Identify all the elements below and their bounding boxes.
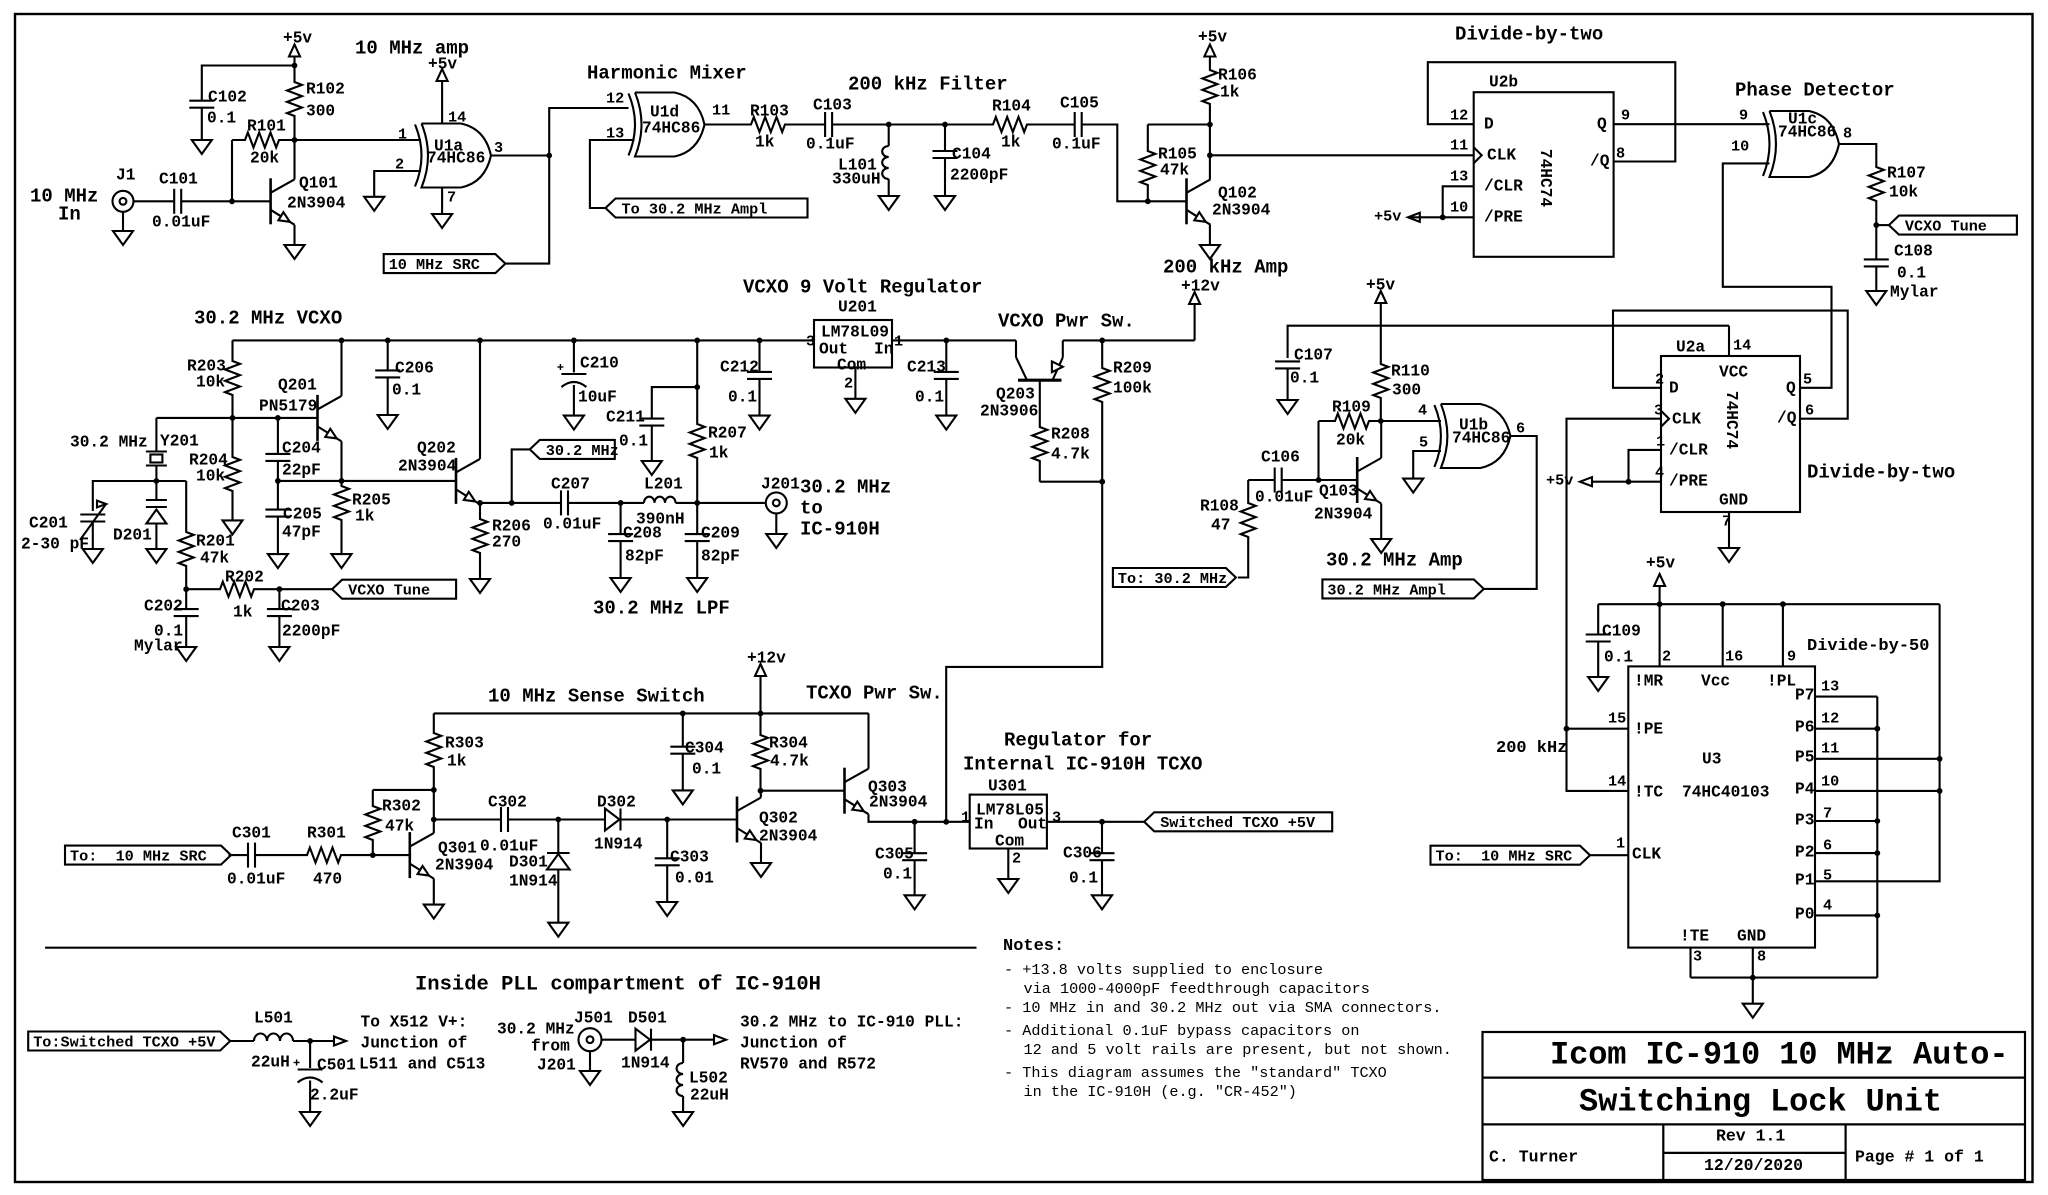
net tag To: 10 MHz SRC (U3) <box>1431 846 1591 865</box>
ground <box>1403 479 1423 493</box>
VCXO top rail <box>233 339 815 341</box>
ground <box>750 416 770 430</box>
node +12v rail <box>758 711 764 717</box>
svg-text:C104: C104 <box>952 145 991 163</box>
svg-text:15: 15 <box>1608 710 1626 728</box>
resistor R102 <box>287 66 302 141</box>
svg-text:Q: Q <box>1597 115 1607 133</box>
svg-text:GND: GND <box>1737 927 1766 945</box>
svg-text:0.1: 0.1 <box>207 109 236 127</box>
svg-text:Switching Lock Unit: Switching Lock Unit <box>1579 1083 1942 1120</box>
svg-text:0.1: 0.1 <box>728 388 757 406</box>
svg-text:+12v: +12v <box>1181 277 1220 295</box>
svg-text:To: 10 MHz SRC: To: 10 MHz SRC <box>1436 848 1573 866</box>
wire U2b Q to U1c pin 9 <box>1614 123 1770 125</box>
svg-text:R208: R208 <box>1051 425 1090 443</box>
ground <box>766 534 786 548</box>
svg-text:30.2 MHz Ampl: 30.2 MHz Ampl <box>1327 581 1445 599</box>
svg-text:C203: C203 <box>281 597 320 615</box>
node switched junction <box>943 819 949 825</box>
svg-text:VCXO 9 Volt Regulator: VCXO 9 Volt Regulator <box>743 276 982 298</box>
svg-text:TCXO Pwr Sw.: TCXO Pwr Sw. <box>806 682 943 704</box>
svg-text:To: 10 MHz SRC: To: 10 MHz SRC <box>70 848 207 866</box>
transistor Q102 <box>1185 178 1188 224</box>
node base Q101 <box>229 198 235 204</box>
title block divider 2 <box>1483 1123 2026 1125</box>
svg-text:200 kHz: 200 kHz <box>1496 739 1567 758</box>
svg-text:1k: 1k <box>233 603 253 621</box>
svg-text:C213: C213 <box>907 358 946 376</box>
svg-text:VCXO Pwr Sw.: VCXO Pwr Sw. <box>998 310 1135 332</box>
svg-text:9: 9 <box>1621 107 1630 125</box>
node GND bottom <box>1750 975 1756 981</box>
svg-text:13: 13 <box>1821 678 1839 696</box>
svg-text:D302: D302 <box>597 793 636 811</box>
svg-text:200 kHz Filter: 200 kHz Filter <box>848 73 1008 95</box>
node C212 rail <box>757 338 763 344</box>
svg-text:Regulator for: Regulator for <box>1004 729 1152 751</box>
svg-text:4.7k: 4.7k <box>770 752 809 770</box>
svg-text:10 MHz Sense Switch: 10 MHz Sense Switch <box>488 685 705 707</box>
svg-text:P4: P4 <box>1795 780 1815 798</box>
svg-text:Internal IC-910H TCXO: Internal IC-910H TCXO <box>963 753 1202 775</box>
svg-text:2N3904: 2N3904 <box>287 194 346 212</box>
wire Q202 collector to rail <box>479 340 481 459</box>
resistor R205 <box>334 481 349 554</box>
node /PRE U2a <box>1626 479 1632 485</box>
svg-text:8: 8 <box>1616 145 1625 163</box>
svg-text:10uF: 10uF <box>578 388 617 406</box>
svg-text:U301: U301 <box>988 777 1027 795</box>
transistor Q301 <box>408 832 411 878</box>
svg-text:from: from <box>531 1037 570 1055</box>
inductor L201 <box>644 497 676 503</box>
capacitor C107 <box>1275 360 1300 362</box>
wire P3 <box>1815 820 1877 822</box>
node 200 kHz at !PE <box>1564 726 1570 732</box>
svg-text:0.1: 0.1 <box>692 760 721 778</box>
wire Vcc pin 16 <box>1722 604 1724 666</box>
svg-text:C210: C210 <box>580 354 619 372</box>
net tag 30.2 MHz Ampl <box>1322 579 1483 598</box>
svg-text:Notes:: Notes: <box>1003 937 1064 956</box>
wire R302 top <box>373 789 434 791</box>
svg-text:C306: C306 <box>1063 844 1102 862</box>
svg-text:Com: Com <box>995 832 1024 850</box>
svg-text:10: 10 <box>1731 138 1749 156</box>
net tag To:Switched TCXO +5V <box>28 1032 230 1051</box>
wire output down to 10 MHz SRC tag <box>506 156 550 264</box>
resistor R303 <box>426 713 441 790</box>
svg-text:4: 4 <box>1418 402 1427 420</box>
svg-text:C201: C201 <box>29 514 68 532</box>
svg-text:5: 5 <box>1419 434 1428 452</box>
svg-text:2-30 pF: 2-30 pF <box>21 535 89 553</box>
svg-text:C209: C209 <box>701 524 740 542</box>
node C104 tap <box>942 122 948 128</box>
resistor R302 <box>365 790 380 855</box>
node C204 rail <box>275 415 281 421</box>
transistor Q201 <box>316 395 319 441</box>
svg-text:1: 1 <box>398 126 407 144</box>
wire to Q301 base <box>373 854 410 856</box>
svg-text:R209: R209 <box>1113 359 1152 377</box>
svg-text:30.2 MHz VCXO: 30.2 MHz VCXO <box>194 307 342 329</box>
svg-text:4.7k: 4.7k <box>1051 445 1090 463</box>
svg-text:1N914: 1N914 <box>621 1054 670 1072</box>
capacitor C208 <box>620 503 622 534</box>
wire U1c output to R107 <box>1839 144 1876 160</box>
svg-text:Q201: Q201 <box>278 376 317 394</box>
svg-text:L511 and C513: L511 and C513 <box>359 1055 485 1073</box>
svg-text:- +13.8 volts supplied to encl: - +13.8 volts supplied to enclosure <box>1004 961 1323 979</box>
svg-text:0.1: 0.1 <box>392 381 421 399</box>
svg-text:C202: C202 <box>144 597 183 615</box>
wire J501 to D501 <box>601 1039 636 1041</box>
svg-text:R301: R301 <box>307 824 346 842</box>
wire Q301 emitter ground <box>433 879 435 905</box>
ground <box>1719 548 1739 562</box>
wire U1a pin 2 to ground <box>374 171 421 197</box>
node D301 top <box>555 817 561 823</box>
resistor R202 <box>186 582 279 597</box>
svg-text:C107: C107 <box>1294 346 1333 364</box>
resistor R201 <box>156 480 186 482</box>
ground <box>580 1071 600 1085</box>
node L101 tap <box>886 122 892 128</box>
svg-text:P0: P0 <box>1795 905 1814 923</box>
resistor R109 <box>1319 414 1381 429</box>
svg-text:2N3904: 2N3904 <box>435 856 494 874</box>
svg-text:Icom IC-910 10 MHz Auto-: Icom IC-910 10 MHz Auto- <box>1550 1036 2008 1073</box>
node Q202 collector rail <box>477 338 483 344</box>
resistor R106 <box>1202 57 1217 125</box>
svg-text:R109: R109 <box>1332 398 1371 416</box>
svg-text:Com: Com <box>837 356 866 374</box>
power +12v <box>1194 304 1196 340</box>
svg-text:Q102: Q102 <box>1218 184 1257 202</box>
svg-text:C106: C106 <box>1261 448 1300 466</box>
svg-text:2N3906: 2N3906 <box>980 402 1038 420</box>
resistor R110 <box>1373 303 1388 421</box>
node Q201 collector rail <box>339 338 345 344</box>
svg-text:1N914: 1N914 <box>509 872 558 890</box>
svg-text:0.01: 0.01 <box>675 869 714 887</box>
svg-text:2200pF: 2200pF <box>950 166 1008 184</box>
node R106 bottom <box>1207 122 1213 128</box>
svg-text:12/20/2020: 12/20/2020 <box>1704 1156 1803 1175</box>
svg-text:6: 6 <box>1516 420 1525 438</box>
svg-text:1: 1 <box>961 809 970 827</box>
svg-text:C305: C305 <box>875 845 914 863</box>
wire to C102 <box>202 66 295 101</box>
node Q103 base <box>1316 477 1322 483</box>
svg-text:VCXO Tune: VCXO Tune <box>348 582 430 600</box>
svg-text:J201: J201 <box>761 475 800 493</box>
node R207 rail <box>694 338 700 344</box>
svg-text:D301: D301 <box>509 853 548 871</box>
transistor Q302 <box>736 797 739 843</box>
wire J1 ground <box>122 212 124 231</box>
svg-text:C103: C103 <box>813 96 852 114</box>
svg-text:Divide-by-50: Divide-by-50 <box>1807 637 1929 656</box>
capacitor C109 <box>1597 604 1599 634</box>
connector J1 <box>113 191 134 212</box>
svg-text:GND: GND <box>1719 491 1748 509</box>
svg-text:Divide-by-two: Divide-by-two <box>1807 461 1955 483</box>
wire to U2b CLK pin 11 <box>1210 154 1474 156</box>
ground <box>192 140 212 154</box>
node C209 tap <box>694 500 700 506</box>
svg-text:in the IC-910H (e.g. "CR-452"): in the IC-910H (e.g. "CR-452") <box>1024 1083 1297 1101</box>
resistor R101 <box>232 133 295 148</box>
flip-flop U2a 74HC74 <box>1661 356 1800 512</box>
resistor R207 <box>690 340 705 503</box>
svg-text:8: 8 <box>1757 948 1766 966</box>
svg-text:/PRE: /PRE <box>1484 208 1523 226</box>
svg-text:/Q: /Q <box>1777 409 1797 427</box>
svg-text:In: In <box>874 340 893 358</box>
svg-text:74HC86: 74HC86 <box>642 119 700 137</box>
svg-text:CLK: CLK <box>1487 146 1516 164</box>
wire C105 to Q102 base <box>1082 125 1187 202</box>
capacitor C101 <box>173 189 175 214</box>
svg-text:7: 7 <box>1823 805 1832 823</box>
wire Q302 emitter ground <box>760 843 762 863</box>
capacitor C108 <box>1875 225 1877 259</box>
svg-text:2: 2 <box>1662 648 1671 666</box>
node R304 bottom <box>758 788 764 794</box>
wire Q301 collector <box>433 790 435 833</box>
wire Q102 collector <box>1209 125 1211 180</box>
ground <box>548 923 568 937</box>
wire Q101 emitter to ground <box>293 225 295 245</box>
svg-text:0.1: 0.1 <box>1290 369 1319 387</box>
wire to X512 arrow <box>310 1040 334 1042</box>
resistor R104 <box>945 117 1075 132</box>
node C306 <box>1099 819 1105 825</box>
svg-text:C101: C101 <box>159 170 198 188</box>
svg-text:12: 12 <box>1821 710 1839 728</box>
svg-text:R303: R303 <box>445 734 484 752</box>
op-amp U1d XOR gate <box>629 94 636 156</box>
net tag 10 MHz SRC <box>384 254 506 273</box>
svg-text:0.01uF: 0.01uF <box>1255 488 1313 506</box>
power +5v left arrow <box>1408 213 1420 222</box>
wire J1 to C101 <box>134 200 174 202</box>
capacitor C304 <box>682 713 684 746</box>
svg-text:To X512 V+:: To X512 V+: <box>361 1013 468 1031</box>
svg-text:2200pF: 2200pF <box>282 622 340 640</box>
svg-text:0.01uF: 0.01uF <box>152 213 210 231</box>
transistor Q103 <box>1356 457 1359 503</box>
wire switched line down to TCXO switch <box>946 482 1102 822</box>
divider line <box>45 947 976 949</box>
wire !TE GND bottom <box>1689 948 1691 978</box>
wire Q201 emitter to mid rail <box>340 441 342 481</box>
svg-text:2: 2 <box>395 156 404 174</box>
wire U1d pin 13 to tag <box>590 140 635 208</box>
svg-text:10k: 10k <box>196 467 225 485</box>
svg-text:To:Switched TCXO +5V: To:Switched TCXO +5V <box>33 1033 216 1051</box>
node C208 tap <box>618 500 624 506</box>
capacitor C501 polarized <box>309 1041 311 1068</box>
svg-text:LM78L09: LM78L09 <box>821 323 889 341</box>
svg-text:+12v: +12v <box>747 649 786 667</box>
svg-text:C212: C212 <box>720 358 759 376</box>
svg-text:6: 6 <box>1805 402 1814 420</box>
svg-text:D: D <box>1484 115 1494 133</box>
svg-text:/CLR: /CLR <box>1669 441 1708 459</box>
ground <box>1588 677 1608 691</box>
svg-text:1k: 1k <box>447 752 467 770</box>
svg-text:R110: R110 <box>1391 362 1430 380</box>
ground <box>146 549 166 563</box>
svg-text:2N3904: 2N3904 <box>869 793 928 811</box>
svg-text:C105: C105 <box>1060 94 1099 112</box>
capacitor C203 <box>278 589 280 609</box>
svg-text:C102: C102 <box>208 88 247 106</box>
ground <box>176 647 196 661</box>
net tag 30.2 MHz input <box>530 440 615 459</box>
svg-text:Divide-by-two: Divide-by-two <box>1455 23 1603 45</box>
svg-text:14: 14 <box>1733 337 1751 355</box>
diode D501 <box>636 1029 651 1051</box>
svg-text:Q203: Q203 <box>996 385 1035 403</box>
svg-text:D501: D501 <box>628 1009 667 1027</box>
op-amp U1b XOR gate <box>1434 405 1441 467</box>
svg-text:Rev 1.1: Rev 1.1 <box>1716 1127 1785 1146</box>
wire P0 <box>1815 914 1877 916</box>
node R209 top <box>1099 338 1105 344</box>
wire U1a output pin 3 <box>491 154 549 156</box>
svg-text:C109: C109 <box>1602 622 1641 640</box>
svg-text:C501: C501 <box>317 1056 356 1074</box>
svg-text:20k: 20k <box>1336 431 1365 449</box>
svg-text:300: 300 <box>1392 381 1421 399</box>
svg-text:P7: P7 <box>1795 686 1814 704</box>
svg-text:C206: C206 <box>395 359 434 377</box>
capacitor C102 <box>189 100 214 102</box>
capacitor C211 <box>652 387 697 419</box>
svg-text:3: 3 <box>1052 809 1061 827</box>
svg-text:Junction of: Junction of <box>361 1034 468 1052</box>
ground <box>673 790 693 804</box>
wire C102 to ground <box>201 108 203 140</box>
wire U301 out <box>1047 821 1144 823</box>
ground <box>424 905 444 919</box>
ground <box>1278 400 1298 414</box>
wire P-bus vertical <box>1876 697 1878 978</box>
svg-text:0.1: 0.1 <box>915 388 944 406</box>
ground <box>657 902 677 916</box>
node C501 tap <box>307 1038 313 1044</box>
wire Q303 collector to rail <box>867 713 869 768</box>
svg-text:C205: C205 <box>283 505 322 523</box>
svg-text:L502: L502 <box>689 1069 728 1087</box>
capacitor C205 <box>277 481 279 510</box>
svg-text:R202: R202 <box>225 568 264 586</box>
svg-text:330uH: 330uH <box>832 170 881 188</box>
svg-text:470: 470 <box>313 870 342 888</box>
svg-text:200 kHz Amp: 200 kHz Amp <box>1163 256 1288 278</box>
wire D501 to junction <box>652 1039 715 1041</box>
resistor R206 <box>473 503 488 579</box>
ground <box>432 214 452 228</box>
transistor Q203 PNP rotated <box>1018 379 1062 382</box>
resistor R103 <box>705 117 826 132</box>
wire Q201 collector to rail <box>340 340 342 396</box>
ground <box>285 245 305 259</box>
capacitor C103 <box>824 112 826 137</box>
wire Q103 collector <box>1380 421 1382 458</box>
ground <box>642 461 662 475</box>
svg-text:P1: P1 <box>1795 871 1815 889</box>
svg-text:C303: C303 <box>670 848 709 866</box>
svg-text:11: 11 <box>1821 740 1839 758</box>
svg-text:/PRE: /PRE <box>1669 472 1708 490</box>
varactor D201 <box>155 481 157 500</box>
node R303 bottom <box>431 787 437 793</box>
node C203 top <box>277 586 283 592</box>
svg-text:3: 3 <box>494 139 503 157</box>
svg-text:R302: R302 <box>382 797 421 815</box>
capacitor C201 variable <box>80 513 105 515</box>
wire U1c pin10 from U2a Q <box>1723 163 1832 387</box>
svg-text:- This diagram assumes the "st: - This diagram assumes the "standard" TC… <box>1004 1064 1387 1082</box>
svg-text:R207: R207 <box>708 424 747 442</box>
arrow to IC-910 PLL <box>714 1035 726 1044</box>
ground <box>1200 245 1220 259</box>
ground <box>300 1112 320 1126</box>
svg-text:Mylar: Mylar <box>1890 283 1939 301</box>
svg-text:!PE: !PE <box>1634 720 1663 738</box>
wire CLK from tag <box>1590 854 1628 856</box>
svg-text:0.01uF: 0.01uF <box>227 870 285 888</box>
svg-text:6: 6 <box>1823 837 1832 855</box>
svg-text:300: 300 <box>306 102 335 120</box>
svg-text:U2b: U2b <box>1489 73 1518 91</box>
capacitor C104 <box>944 125 946 152</box>
svg-text:12 and 5 volt rails are presen: 12 and 5 volt rails are present, but not… <box>1024 1041 1452 1059</box>
node C305 <box>912 819 918 825</box>
net tag To 30.2 MHz Ampl <box>606 199 808 218</box>
transistor Q303 <box>843 768 846 814</box>
svg-text:CLK: CLK <box>1632 845 1661 863</box>
node R203 bottom <box>230 415 236 421</box>
svg-text:82pF: 82pF <box>625 547 664 565</box>
svg-text:!TE: !TE <box>1680 927 1709 945</box>
VCXO mid rail <box>278 480 456 482</box>
svg-text:Junction of: Junction of <box>740 1034 847 1052</box>
svg-text:47pF: 47pF <box>282 523 321 541</box>
svg-text:J1: J1 <box>116 166 136 184</box>
svg-text:L201: L201 <box>644 475 683 493</box>
svg-text:47: 47 <box>1211 516 1230 534</box>
svg-text:C. Turner: C. Turner <box>1489 1148 1578 1167</box>
node U1a output <box>546 153 552 159</box>
svg-text:- Additional 0.1uF bypass capa: - Additional 0.1uF bypass capacitors on <box>1004 1022 1359 1040</box>
wire P6 <box>1815 728 1877 730</box>
svg-text:3: 3 <box>806 333 815 351</box>
wire U1a pin 14 +5v <box>441 81 443 124</box>
title block divider 1 <box>1483 1076 2026 1078</box>
svg-text:R304: R304 <box>769 734 808 752</box>
svg-text:P5: P5 <box>1795 748 1814 766</box>
capacitor C305 <box>914 822 916 853</box>
counter U3 74HC40103 <box>1628 666 1815 947</box>
node L502 tap <box>680 1037 686 1043</box>
